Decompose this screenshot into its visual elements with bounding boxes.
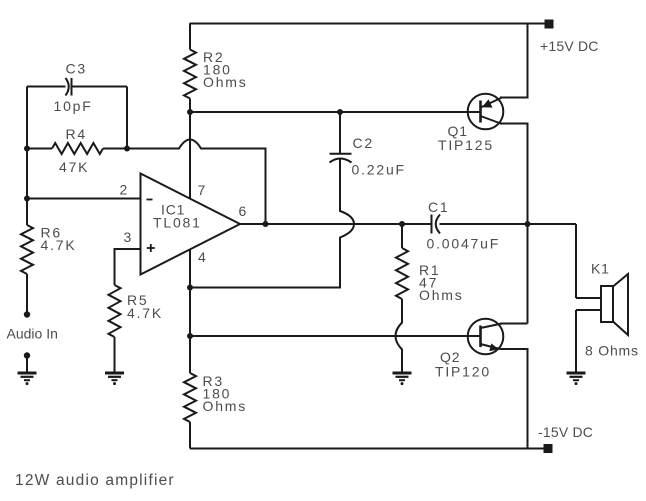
label op-amp plus <box>147 244 155 252</box>
wire Q2 collector right <box>500 323 528 325</box>
wire Q2 emitter to -15V <box>500 349 528 449</box>
wire collector junction down to Q2 <box>527 224 529 324</box>
node feedback/output junction <box>263 221 269 227</box>
wire op-amp pin7 vertical <box>189 112 191 199</box>
wire speaker bottom stub <box>576 309 601 311</box>
wire C3 left lead <box>27 86 66 88</box>
capacitor C1 <box>432 215 441 234</box>
wire Q1 emitter to +15V <box>500 24 528 98</box>
svg-text:6: 6 <box>239 203 249 219</box>
op-amp U1 triangle <box>141 174 241 275</box>
node C2 top junction <box>337 109 343 115</box>
speaker K1 cone <box>613 274 628 335</box>
resistor R3 <box>184 373 196 422</box>
transistor Q1 emitter arrow <box>482 99 493 107</box>
svg-text:C1: C1 <box>428 199 450 215</box>
svg-text:2: 2 <box>120 182 130 198</box>
wire Q2 base rail <box>190 335 480 337</box>
ground input <box>18 373 37 385</box>
transistor Q2 collector <box>481 324 503 329</box>
ground R1 <box>393 373 412 385</box>
svg-text:-15V DC: -15V DC <box>538 424 593 440</box>
wire speaker branch vertical <box>575 224 577 298</box>
svg-text:+15V DC: +15V DC <box>540 38 599 54</box>
svg-text:8 Ohms: 8 Ohms <box>585 343 639 359</box>
node output/R1/C1 junction <box>399 221 405 227</box>
svg-text:0.0047uF: 0.0047uF <box>427 236 501 252</box>
svg-text:0.22uF: 0.22uF <box>352 162 406 178</box>
ground speaker <box>567 373 586 385</box>
resistor R6 <box>21 225 33 274</box>
wire Q1 base rail <box>190 111 480 113</box>
node R4 left junction <box>24 146 30 152</box>
svg-text:Ohms: Ohms <box>203 74 248 90</box>
terminal +15V square <box>545 20 554 29</box>
wire C2 top lead <box>339 112 341 153</box>
node output/collector junction <box>525 221 531 227</box>
node Audio In terminal <box>24 311 30 317</box>
transistor Q1 collector <box>481 116 503 124</box>
transistor Q2 circle <box>468 319 504 355</box>
svg-text:R4: R4 <box>66 126 88 142</box>
node input ground terminal <box>24 352 30 358</box>
wire R4 left lead <box>27 148 52 150</box>
ground R5 <box>105 373 124 385</box>
wire input ground stub <box>26 356 28 373</box>
speaker K1 body <box>601 286 613 322</box>
transistor Q1 emitter <box>481 98 503 108</box>
wire C2 bottom lead with hop over output <box>190 160 354 288</box>
resistor R5 <box>109 285 121 337</box>
wire C1 right to speaker branch <box>440 223 577 225</box>
node pin4/base junction <box>187 333 193 339</box>
svg-text:10pF: 10pF <box>54 98 93 114</box>
resistor R1 <box>396 248 408 299</box>
transistor Q1 base bar <box>479 101 482 123</box>
wire R1 bottom with hop over base wire <box>396 299 403 373</box>
wire R2 top lead <box>189 24 191 50</box>
svg-text:Ohms: Ohms <box>203 398 248 414</box>
svg-text:4.7K: 4.7K <box>41 237 77 253</box>
svg-text:7: 7 <box>198 182 208 198</box>
svg-text:12W audio amplifier: 12W audio amplifier <box>15 472 175 489</box>
svg-text:TIP120: TIP120 <box>435 364 491 380</box>
svg-text:4.7K: 4.7K <box>127 305 163 321</box>
node R4 right junction <box>124 146 130 152</box>
svg-text:4: 4 <box>198 249 208 265</box>
wire C3 loop left vertical <box>26 87 28 226</box>
wire R5 bottom lead <box>114 337 116 373</box>
wire feedback with hop over pin7 line <box>127 140 266 225</box>
node R2/base junction <box>187 109 193 115</box>
node pin4/C2 junction <box>187 285 193 291</box>
wire R3 bottom lead <box>189 422 191 449</box>
transistor Q2 base bar <box>479 326 482 348</box>
label op-amp minus <box>147 199 153 201</box>
wire R4 right lead <box>103 148 127 150</box>
wire R2 bottom lead <box>189 99 191 113</box>
svg-text:TL081: TL081 <box>153 215 202 231</box>
transistor Q1 circle <box>468 94 504 130</box>
capacitor C2 <box>330 154 352 163</box>
svg-text:K1: K1 <box>591 261 610 277</box>
terminal -15V square <box>544 444 553 453</box>
capacitor C3 <box>66 78 128 96</box>
wire C3 right vertical <box>126 87 128 149</box>
svg-text:C3: C3 <box>66 61 88 77</box>
svg-text:C2: C2 <box>353 135 375 151</box>
resistor R2 <box>184 50 196 99</box>
wire R6 bottom lead <box>26 274 28 315</box>
wire top +15V rail <box>190 23 547 25</box>
wire speaker top stub <box>576 297 601 299</box>
svg-text:Audio In: Audio In <box>7 326 58 342</box>
wire R1 top lead <box>401 224 403 248</box>
svg-text:3: 3 <box>124 229 134 245</box>
wire op-amp output <box>240 223 431 225</box>
svg-text:47K: 47K <box>59 159 89 175</box>
svg-text:TIP125: TIP125 <box>438 137 494 153</box>
transistor Q2 emitter arrow <box>489 343 499 351</box>
svg-text:Ohms: Ohms <box>419 287 464 303</box>
wire Q1 collector down <box>500 124 528 225</box>
wire pin2 to op-amp <box>27 198 141 200</box>
wire bottom -15V rail <box>190 448 545 450</box>
wire pin3 to op-amp <box>115 249 141 285</box>
resistor R4 <box>52 143 103 154</box>
wire pin4 vertical <box>189 249 191 373</box>
transistor Q2 emitter <box>481 344 501 349</box>
wire speaker to ground <box>575 310 577 373</box>
node inverting input junction <box>24 196 30 202</box>
